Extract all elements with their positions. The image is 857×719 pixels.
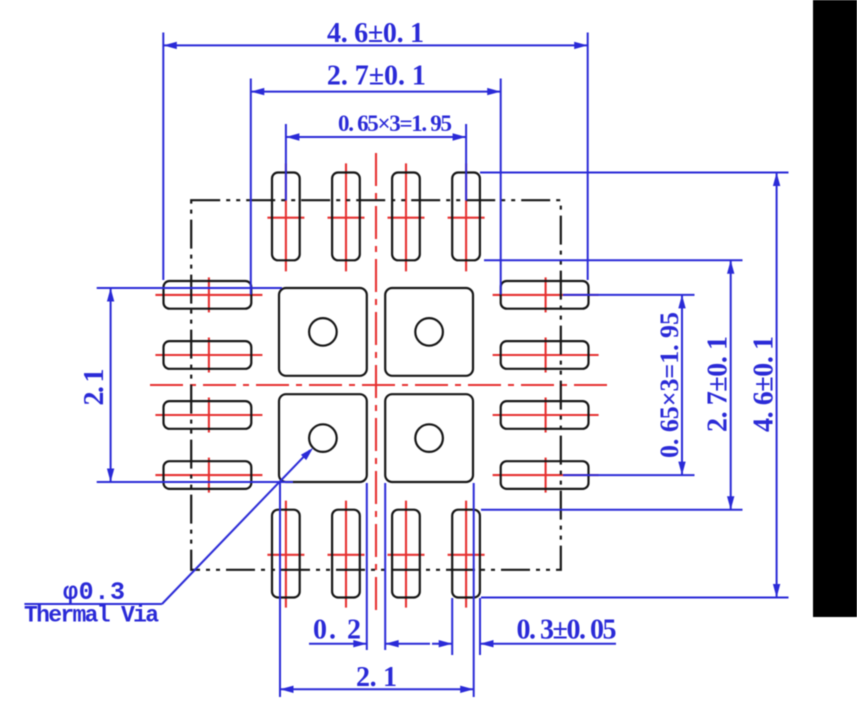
dimension 2.7±0.1 (right): extension lines xyxy=(484,259,743,261)
dimension 0.2 (bottom): extension lines xyxy=(366,483,368,650)
right pad 4 xyxy=(501,461,589,489)
left pad 3 xyxy=(164,401,252,429)
svg-text:0. 3±0. 05: 0. 3±0. 05 xyxy=(517,615,617,646)
centre mark, bottom pad 2 xyxy=(345,501,347,608)
horizontal centre line xyxy=(150,384,610,386)
dimension 2.7±0.1 (top): dimension line xyxy=(251,91,501,93)
dimension 4.6±0.1 (right): extension lines xyxy=(480,172,789,174)
centre mark, left pad 4 xyxy=(155,474,262,476)
dimension 2.1 (bottom): extension lines xyxy=(279,483,281,697)
dimension 0.2 (bottom): dimension line with outside arrows xyxy=(309,643,367,645)
dimension 0.65×3=1.95 (right): extension lines xyxy=(563,294,695,296)
bottom pad 4 xyxy=(452,510,480,598)
centre mark, right pad 2 xyxy=(493,354,599,356)
top pad 3 xyxy=(392,173,420,261)
centre mark, top pad 4 xyxy=(465,163,467,271)
thermal via leader line xyxy=(24,603,162,605)
svg-text:4. 6±0. 1: 4. 6±0. 1 xyxy=(749,336,780,432)
left pad 2 xyxy=(164,341,252,369)
dimension 2.7±0.1 (top): extension lines xyxy=(250,79,252,295)
centre mark, left pad 1 xyxy=(155,294,262,296)
left pad 4 xyxy=(164,461,252,489)
right pad 2 xyxy=(501,341,589,369)
dimension 2.1 (bottom): dimension line xyxy=(280,688,474,690)
dimension 4.6±0.1 (top): dimension line xyxy=(163,44,587,46)
thermal via hole (top-right pad) xyxy=(415,318,443,346)
bottom pad 3 xyxy=(392,510,420,598)
centre mark, right pad 3 xyxy=(493,414,599,416)
svg-text:2. 1: 2. 1 xyxy=(79,369,110,406)
thermal pad top-left xyxy=(279,288,367,376)
dimension 0.65×3=1.95 (right): dimension line xyxy=(681,295,683,475)
thermal pad bottom-left xyxy=(279,394,367,482)
left pad 1 xyxy=(164,281,252,309)
top pad 2 xyxy=(332,173,360,261)
centre mark, bottom pad 4 xyxy=(465,501,467,608)
svg-text:0. 2: 0. 2 xyxy=(313,615,361,646)
bottom pad 1 xyxy=(272,510,300,598)
svg-text:0. 65×3=1. 95: 0. 65×3=1. 95 xyxy=(338,111,452,136)
dimension 0.65×3=1.95 (top): dimension line xyxy=(286,136,466,138)
centre mark, bottom pad 3 xyxy=(405,501,407,608)
thermal via hole (bottom-right pad) xyxy=(415,424,443,452)
centre mark, left pad 3 xyxy=(155,414,262,416)
dimension 2.7±0.1 (right): dimension line xyxy=(730,260,732,510)
dimension 0.3±0.05 (bottom): extension lines xyxy=(451,598,453,655)
dimension 0.65×3=1.95 (top): extension lines xyxy=(285,124,287,201)
right pad 1 xyxy=(501,281,589,309)
centre mark, top pad 1 xyxy=(285,163,287,271)
dimension 2.1 (left): dimension line xyxy=(110,288,112,482)
top pad 1 xyxy=(272,173,300,261)
title block sidebar (black) xyxy=(813,0,857,617)
dimension 2.1 (left): extension lines xyxy=(97,287,282,289)
top pad 4 xyxy=(452,173,480,261)
thermal pad bottom-right xyxy=(385,394,473,482)
centre mark, bottom pad 1 xyxy=(285,501,287,608)
svg-text:Thermal Via: Thermal Via xyxy=(24,603,159,629)
thermal pad top-right xyxy=(385,288,473,376)
svg-text:2. 7±0. 1: 2. 7±0. 1 xyxy=(327,61,426,92)
centre mark, top pad 2 xyxy=(345,163,347,271)
dimension 4.6±0.1 (right): dimension line xyxy=(776,173,778,598)
centre mark, right pad 4 xyxy=(493,474,599,476)
thermal via hole (bottom-left pad) xyxy=(309,424,337,452)
centre mark, top pad 3 xyxy=(405,163,407,271)
vertical centre line xyxy=(375,153,377,615)
svg-text:0. 65×3=1. 95: 0. 65×3=1. 95 xyxy=(655,312,684,458)
dimension 4.6±0.1 (top): extension lines xyxy=(162,33,164,281)
svg-text:2. 1: 2. 1 xyxy=(356,662,397,693)
thermal via hole (top-left pad) xyxy=(309,318,337,346)
centre mark, right pad 1 xyxy=(493,294,599,296)
svg-text:4. 6±0. 1: 4. 6±0. 1 xyxy=(327,18,424,49)
dimension 0.3±0.05 (bottom): dimension line with outside arrows xyxy=(432,643,452,645)
package outline (phantom) xyxy=(191,200,561,570)
bottom pad 2 xyxy=(332,510,360,598)
centre mark, left pad 2 xyxy=(155,354,262,356)
svg-text:2. 7±0. 1: 2. 7±0. 1 xyxy=(703,336,734,432)
right pad 3 xyxy=(501,401,589,429)
